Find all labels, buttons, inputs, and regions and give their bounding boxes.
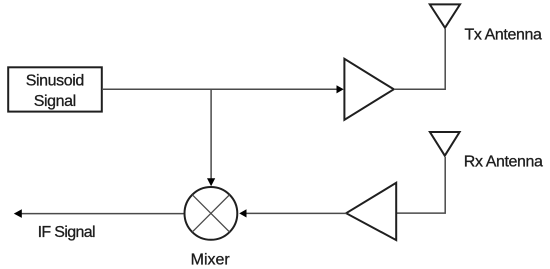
svg-text:Rx Antenna: Rx Antenna: [464, 154, 543, 171]
mixer: X diagonal 2: [192, 195, 229, 232]
svg-text:Tx Antenna: Tx Antenna: [465, 27, 542, 44]
mixer: circle: [185, 187, 238, 240]
mixer: X diagonal 1: [192, 195, 229, 232]
antenna: Tx antenna symbol: [430, 4, 460, 27]
wire: source to Tx amplifier: [103, 88, 338, 90]
wire: mixer to IF output: [22, 213, 184, 215]
arrowhead: into Tx amplifier: [337, 85, 344, 93]
wire: Rx amp to mixer: [247, 212, 347, 214]
arrowhead: IF output: [14, 209, 22, 218]
svg-text:Mixer: Mixer: [191, 252, 231, 269]
amplifier: Tx power amp triangle: [344, 59, 393, 120]
svg-text:IF Signal: IF Signal: [38, 224, 95, 241]
svg-text:Signal: Signal: [34, 93, 76, 110]
arrowhead: into mixer top: [207, 178, 215, 186]
wire: Tx amp to antenna feed: [394, 29, 445, 89]
arrowhead: into mixer right: [239, 209, 246, 217]
wire: Rx antenna feed to Rx amplifier: [396, 157, 445, 213]
block: Sinusoid Signal source: [8, 67, 102, 111]
svg-text:Sinusoid: Sinusoid: [26, 72, 84, 89]
amplifier: Rx low-noise amp triangle: [346, 183, 396, 240]
antenna: Rx antenna symbol: [430, 132, 460, 156]
wire: junction vertical to mixer: [210, 89, 212, 179]
